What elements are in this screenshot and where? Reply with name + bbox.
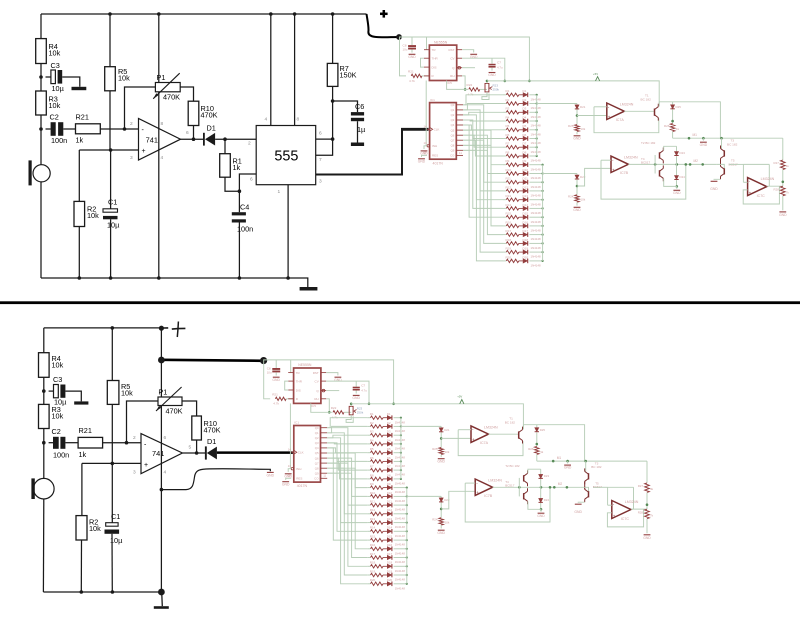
svg-text:D23: D23 — [544, 474, 550, 478]
wire R28 to GND (top) — [782, 196, 784, 211]
svg-text:D1: D1 — [387, 412, 391, 416]
ground GND (R24) (bottom) — [437, 530, 445, 535]
svg-text:GND: GND — [564, 466, 572, 470]
svg-text:13: 13 — [288, 464, 292, 468]
resistor R14 led-row (top) — [503, 203, 519, 210]
capacitor C6 — [351, 102, 366, 146]
wire C6 inner lead — [357, 121, 359, 142]
ground bar (C3) — [72, 87, 87, 90]
wire Q stub (bottom) — [326, 390, 339, 392]
svg-text:1N4148: 1N4148 — [395, 499, 406, 503]
svg-text:8: 8 — [161, 121, 164, 127]
resistor R7 led-row (top) — [503, 142, 519, 149]
svg-text:T2 BC 182: T2 BC 182 — [641, 141, 656, 145]
svg-text:R2: R2 — [506, 98, 510, 102]
svg-text:13: 13 — [424, 141, 428, 145]
ground GND (R25) (top) — [573, 136, 581, 141]
wire R21e to pin R (bottom) — [286, 398, 293, 400]
svg-text:NE555N: NE555N — [298, 363, 312, 367]
wire freehand to eagle GND (bottom) — [161, 469, 270, 490]
svg-text:3: 3 — [130, 155, 133, 161]
wire C3 left lead — [46, 76, 51, 78]
wire led D9 cathode (top) — [529, 164, 542, 166]
wire D23-D24 link (bottom) — [540, 479, 542, 498]
svg-text:1µ: 1µ — [357, 125, 366, 134]
svg-text:10k: 10k — [49, 49, 61, 58]
svg-text:1k: 1k — [79, 450, 87, 459]
svg-text:RH: RH — [314, 397, 318, 401]
junction — [192, 137, 196, 141]
svg-text:GND: GND — [573, 136, 581, 140]
svg-text:R26: R26 — [528, 447, 534, 451]
junction — [109, 276, 113, 280]
wire V+ net (bottom) — [263, 360, 393, 404]
wire led D4 cathode (bottom) — [394, 443, 401, 445]
LED D16 1N4148 (bottom) — [383, 543, 405, 555]
wire led D2 cathode (top) — [529, 103, 536, 105]
wire IC7C +input feedback (bottom) — [607, 509, 643, 527]
microphone MIC1 — [29, 160, 51, 185]
svg-text:R15: R15 — [506, 212, 512, 216]
wire D1 to 4017 CLK thick (bottom) — [217, 451, 293, 454]
wire R5 branch (bottom) — [111, 328, 113, 381]
svg-text:GND: GND — [710, 187, 718, 191]
wire D21 to R25 (top) — [576, 110, 578, 125]
svg-text:RES: RES — [296, 476, 302, 480]
svg-text:IC7C: IC7C — [621, 517, 630, 521]
ground GND (M1) (top) — [700, 138, 708, 147]
svg-text:3: 3 — [133, 470, 136, 476]
wire 555 pin8 — [294, 14, 296, 126]
ground GND (RST) (top) — [470, 54, 478, 59]
LED D13 1N4148 (bottom) — [383, 517, 405, 529]
svg-text:D15: D15 — [387, 535, 393, 539]
svg-text:R12: R12 — [370, 508, 376, 512]
resistor R5 led-row (top) — [503, 124, 519, 131]
op-amp IC7B LM324N (top) — [611, 156, 638, 175]
wire DIS drop (bottom) — [311, 403, 332, 412]
resistor R22 (top) — [467, 83, 480, 96]
svg-text:4.7k: 4.7k — [409, 79, 415, 83]
svg-text:+: + — [144, 462, 148, 469]
resistor R10 (bottom) — [192, 416, 221, 440]
svg-text:R5: R5 — [370, 447, 374, 451]
svg-text:IC1: IC1 — [430, 98, 435, 102]
junction — [160, 488, 164, 492]
svg-text:R18: R18 — [506, 238, 512, 242]
svg-text:IC5: IC5 — [447, 81, 452, 85]
svg-text:R22: R22 — [331, 406, 337, 410]
junction — [39, 75, 43, 79]
svg-text:GND: GND — [418, 159, 426, 163]
LED D15 1N4148 (bottom) — [383, 535, 405, 547]
op-amp U1 741 (bottom) — [141, 434, 182, 474]
resistor R3 led-row (bottom) — [367, 430, 383, 437]
svg-text:C3: C3 — [51, 61, 60, 70]
svg-text:RST: RST — [449, 48, 455, 52]
svg-text:R16: R16 — [370, 543, 376, 547]
wire T5 emitter to GND (top) — [710, 179, 720, 191]
ground GND (R24) (top) — [573, 207, 581, 212]
ground GND (T4) (top) — [673, 186, 681, 195]
svg-text:BC517: BC517 — [505, 483, 515, 487]
wire led D6 cathode (bottom) — [394, 460, 401, 462]
svg-text:8: 8 — [297, 117, 300, 123]
svg-text:1N4148: 1N4148 — [531, 220, 542, 224]
wire T4 emitter (bottom) — [528, 502, 541, 510]
junction — [269, 12, 273, 16]
svg-text:6: 6 — [319, 131, 322, 137]
ground GND (R25) (bottom) — [437, 459, 445, 464]
wire R2 to bottom rail — [78, 227, 80, 279]
svg-text:1N4148: 1N4148 — [531, 264, 542, 268]
wire RST to GND (top) — [462, 50, 474, 53]
svg-text:1N4148: 1N4148 — [395, 473, 406, 477]
svg-text:D12: D12 — [523, 185, 529, 189]
svg-text:741: 741 — [152, 449, 164, 458]
wire M2 to T5 base (bottom) — [581, 487, 589, 491]
wire IC7A -input (bottom) — [458, 429, 471, 431]
resistor R21 — [76, 113, 101, 145]
svg-text:GND: GND — [779, 213, 787, 217]
wire led D18 cathode (bottom) — [394, 565, 407, 567]
wire D22 node to IC7B +input (top) — [577, 168, 611, 186]
transistor T4 BC517 darlington (top) — [641, 141, 663, 181]
resistor R16 led-row (top) — [503, 220, 519, 227]
svg-text:R3: R3 — [506, 107, 510, 111]
svg-text:D19: D19 — [523, 247, 529, 251]
wire led D6 cathode (top) — [529, 138, 536, 140]
capacitor C3 — [51, 61, 65, 93]
resistor R5 — [105, 67, 130, 91]
wire V+ horizontal (top) — [659, 102, 720, 138]
wire R5 to +input node (bottom) — [111, 404, 113, 463]
svg-text:1N4148: 1N4148 — [395, 490, 406, 494]
svg-text:250k: 250k — [493, 88, 500, 92]
wire trimmer top to V+ rail (top) — [486, 81, 488, 84]
wire D22 to R24 (bottom) — [440, 503, 442, 518]
transistor T5 BC517 darlington (bottom) — [585, 481, 603, 502]
svg-text:250k: 250k — [357, 410, 364, 414]
capacitor C8 (bottom) — [267, 360, 281, 376]
svg-text:D18: D18 — [523, 238, 529, 242]
supply symbol +5V (bottom) — [460, 400, 464, 404]
svg-text:CLK: CLK — [434, 128, 440, 132]
svg-text:1N4148: 1N4148 — [395, 464, 406, 468]
wire T5 emitter to GND (bottom) — [574, 502, 584, 514]
junction — [109, 148, 113, 152]
wire R5 to +input node — [109, 91, 111, 150]
resistor R20 led-row (top) — [503, 255, 519, 262]
wire led D8 cathode (bottom) — [394, 478, 401, 480]
wire right chain vertical (bottom) — [646, 461, 648, 483]
transistor T4 BC517 darlington (bottom) — [505, 464, 527, 504]
op-amp IC7C LM324N (top) — [748, 177, 775, 198]
svg-text:1N4148: 1N4148 — [531, 106, 542, 110]
svg-text:1N4148: 1N4148 — [395, 508, 406, 512]
wire led D16 cathode (bottom) — [394, 548, 407, 550]
svg-text:Q8: Q8 — [315, 466, 319, 470]
wire NE555 to 4017 left rail (bottom) — [289, 403, 291, 468]
ground bar (C3 bottom) — [74, 401, 88, 404]
wire D22 to R24 (top) — [576, 180, 578, 195]
plus supply symbol — [380, 10, 388, 18]
svg-text:P1: P1 — [157, 73, 166, 82]
svg-text:GND: GND — [267, 473, 275, 477]
wire D24 to GND node (bottom) — [540, 503, 542, 509]
wire D21 node to +input (top) — [577, 115, 607, 117]
svg-text:100n: 100n — [51, 136, 67, 145]
svg-text:BC 182: BC 182 — [727, 142, 738, 146]
ground GND (RES) (top) — [418, 159, 426, 164]
svg-text:1N4148: 1N4148 — [395, 525, 406, 529]
svg-text:D11: D11 — [523, 177, 529, 181]
wire C1 top lead (bottom) — [111, 463, 113, 522]
svg-text:10k: 10k — [445, 520, 450, 524]
svg-text:10k: 10k — [89, 524, 101, 533]
svg-text:Q1: Q1 — [451, 108, 455, 112]
resistor R17 led-row (bottom) — [367, 552, 383, 559]
svg-text:GND: GND — [488, 73, 496, 77]
svg-text:D24: D24 — [680, 175, 686, 179]
node thick wire left — [158, 357, 165, 364]
svg-text:14: 14 — [424, 125, 428, 129]
svg-text:C7: C7 — [361, 383, 365, 387]
wire IC7B feedback loop (bottom) — [465, 483, 550, 522]
svg-text:D16: D16 — [523, 220, 529, 224]
svg-text:7k: 7k — [650, 513, 654, 517]
svg-text:BC 182: BC 182 — [591, 465, 602, 469]
svg-text:D21: D21 — [444, 428, 450, 432]
svg-text:D3: D3 — [387, 430, 391, 434]
wire R22 to trimmer (bottom) — [344, 411, 351, 413]
svg-text:D25: D25 — [676, 105, 682, 109]
wire C3 left lead (bottom) — [49, 390, 54, 392]
wire Q stub (top) — [462, 67, 475, 69]
wire op-amp output (bottom) — [182, 452, 205, 454]
LED D6 1N4148 (bottom) — [383, 456, 405, 468]
svg-text:D19: D19 — [387, 569, 393, 573]
wire left vertical (bottom) — [43, 328, 45, 353]
wire led D14 cathode (top) — [529, 207, 542, 209]
svg-text:R21: R21 — [76, 113, 89, 122]
wire V+ horizontal (bottom) — [523, 425, 584, 461]
junction — [286, 276, 290, 280]
svg-text:R10: R10 — [370, 491, 376, 495]
svg-text:470K: 470K — [201, 111, 218, 120]
wire R5 branch vertical — [109, 14, 111, 67]
svg-text:R28: R28 — [638, 510, 644, 514]
wire top rail (bottom circuit) — [44, 327, 162, 329]
wire cathode bus B (top) — [542, 165, 544, 261]
resistor R6 led-row (top) — [503, 133, 519, 140]
svg-text:D14: D14 — [387, 526, 393, 530]
svg-text:100n: 100n — [53, 451, 69, 460]
wire D25 to R26 (bottom) — [536, 432, 538, 446]
node thick wire right — [260, 357, 267, 364]
svg-text:1N4148: 1N4148 — [395, 543, 406, 547]
svg-text:R6: R6 — [370, 456, 374, 460]
ground GND (freehand target) — [267, 472, 275, 477]
wire led D2 cathode (bottom) — [394, 425, 401, 427]
svg-text:R11: R11 — [506, 177, 512, 181]
svg-text:D6: D6 — [523, 133, 527, 137]
wire D23-D24 link (top) — [676, 156, 678, 175]
wire mic to bottom rail — [42, 499, 44, 592]
junction — [108, 12, 112, 16]
ground GND (RST) (bottom) — [334, 377, 342, 382]
resistor R5 (bottom) — [107, 381, 133, 405]
resistor R2 — [74, 201, 99, 226]
svg-text:R19: R19 — [370, 569, 376, 573]
capacitor C2 — [50, 113, 68, 145]
wire led D7 cathode (bottom) — [394, 469, 401, 471]
svg-text:C3: C3 — [53, 375, 62, 384]
ground GND (RES) (bottom) — [282, 482, 290, 487]
resistor R13 led-row (bottom) — [367, 517, 383, 524]
svg-text:2: 2 — [133, 435, 136, 441]
wire R1 top lead — [224, 139, 226, 154]
svg-text:C7: C7 — [497, 61, 501, 65]
wire V+ rail right (bottom) — [351, 404, 523, 429]
wire led D8 cathode (top) — [529, 155, 536, 157]
resistor R3 (bottom) — [39, 404, 64, 428]
resistor R1 led-row (bottom) — [367, 412, 383, 419]
svg-text:Q0: Q0 — [315, 426, 319, 430]
resistor R21 (bottom) — [78, 426, 103, 459]
resistor R27 (top) — [774, 160, 790, 170]
svg-text:4017N: 4017N — [297, 484, 308, 488]
LED D1 1N4148 (top) — [519, 89, 541, 101]
wire 555 pin1 to ground rail — [287, 185, 289, 278]
svg-text:1N4148: 1N4148 — [395, 455, 406, 459]
wire RES to GND (top) — [422, 155, 428, 157]
potentiometer P1 (bottom) — [156, 387, 183, 416]
transistor T5 BC517 darlington (top) — [721, 158, 739, 179]
svg-text:Q6: Q6 — [315, 456, 319, 460]
svg-text:1N4148: 1N4148 — [531, 255, 542, 259]
LED D18 1N4148 (top) — [519, 238, 541, 250]
ground GND (C7) (top) — [488, 73, 496, 78]
diode D24 (bottom) — [539, 498, 550, 503]
svg-text:4: 4 — [164, 470, 167, 476]
resistor R19 led-row (top) — [503, 247, 519, 254]
svg-text:+: + — [142, 148, 146, 155]
svg-text:1N4148: 1N4148 — [531, 132, 542, 136]
wire IC7A feedback loop (bottom) — [458, 430, 523, 456]
svg-text:R1: R1 — [370, 412, 374, 416]
wire D21 to R25 (bottom) — [440, 432, 442, 447]
wire led D4 cathode (top) — [529, 120, 536, 122]
capacitor C8 (top) — [403, 37, 417, 53]
wire INH to GND (top) — [424, 146, 427, 149]
svg-text:4: 4 — [265, 117, 268, 123]
thick supply wire (bottom) — [161, 360, 263, 361]
svg-text:BC 182: BC 182 — [505, 421, 516, 425]
svg-text:R9: R9 — [506, 159, 510, 163]
LED D20 1N4148 (bottom) — [383, 578, 405, 590]
svg-text:1N4148: 1N4148 — [395, 551, 406, 555]
wire V+ to NE555 pin TR (top) — [426, 37, 428, 50]
resistor R20 led-row (bottom) — [367, 578, 383, 585]
LED D19 1N4148 (top) — [519, 247, 541, 259]
svg-text:Q3: Q3 — [315, 441, 319, 445]
svg-text:RST: RST — [313, 371, 319, 375]
resistor R7 — [327, 63, 356, 86]
capacitor C7 (bottom) — [353, 381, 368, 393]
wire R2 branch (bottom) — [81, 463, 83, 515]
potentiometer P1 — [153, 73, 180, 102]
svg-text:1N4148: 1N4148 — [395, 569, 406, 573]
svg-text:4017N: 4017N — [433, 161, 444, 165]
wire op-amp vertical (bottom) — [160, 328, 162, 592]
svg-text:2: 2 — [248, 141, 251, 147]
svg-text:D1: D1 — [523, 89, 527, 93]
svg-text:10k: 10k — [87, 211, 99, 220]
svg-text:R16: R16 — [506, 220, 512, 224]
svg-text:1N4148: 1N4148 — [531, 124, 542, 128]
LED D14 1N4148 (top) — [519, 203, 541, 215]
wire R7 branch — [332, 14, 334, 63]
wire led D5 cathode (bottom) — [394, 452, 401, 454]
wire led D5 cathode (top) — [529, 129, 536, 131]
wire led D18 cathode (top) — [529, 242, 542, 244]
wire led D16 cathode (top) — [529, 225, 542, 227]
svg-text:4k: 4k — [650, 487, 654, 491]
wire led D15 cathode (top) — [529, 216, 542, 218]
wire R26 to M1 rail (top) — [672, 132, 674, 139]
resistor R4 (bottom) — [39, 353, 64, 378]
wire led D1 cathode (top) — [529, 94, 536, 96]
svg-text:LM324N: LM324N — [625, 500, 639, 504]
IC1 4017N (top) — [424, 98, 464, 166]
trimmer R23 (bottom) — [349, 406, 364, 414]
resistor R3 led-row (top) — [503, 107, 519, 114]
svg-text:7k: 7k — [786, 191, 790, 195]
svg-text:T2 BC 182: T2 BC 182 — [505, 464, 520, 468]
svg-text:R4: R4 — [370, 438, 374, 442]
wire led D9 cathode (bottom) — [394, 487, 407, 489]
wire bus B to comparator IC7B (top) — [543, 173, 577, 175]
resistor R22 (bottom) — [331, 406, 344, 419]
svg-text:BC 182: BC 182 — [641, 98, 652, 102]
node rail end (bottom) — [159, 326, 164, 331]
svg-text:R24: R24 — [568, 195, 574, 199]
junction — [42, 441, 46, 445]
svg-text:C1: C1 — [108, 198, 117, 207]
divider line — [0, 301, 800, 304]
svg-text:+: + — [613, 513, 616, 518]
junction — [125, 441, 129, 445]
wire cathode bus A (top) — [536, 95, 538, 156]
LED D6 1N4148 (top) — [519, 133, 541, 145]
wire R10 to output node — [193, 126, 195, 140]
svg-text:R25: R25 — [568, 124, 574, 128]
svg-text:GND: GND — [408, 55, 416, 59]
wire 4017 output fan (bottom) — [327, 418, 367, 584]
svg-text:D20: D20 — [523, 255, 529, 259]
svg-text:R20: R20 — [506, 255, 512, 259]
wire P1 left feedback (bottom) — [127, 401, 159, 443]
svg-text:LM324N: LM324N — [484, 425, 498, 429]
junction — [293, 12, 297, 16]
resistor R13 led-row (top) — [503, 194, 519, 201]
svg-text:6: 6 — [250, 177, 253, 183]
svg-text:11: 11 — [323, 474, 326, 478]
junction — [123, 127, 127, 131]
svg-text:GND: GND — [574, 510, 582, 514]
resistor R4 — [36, 39, 61, 64]
